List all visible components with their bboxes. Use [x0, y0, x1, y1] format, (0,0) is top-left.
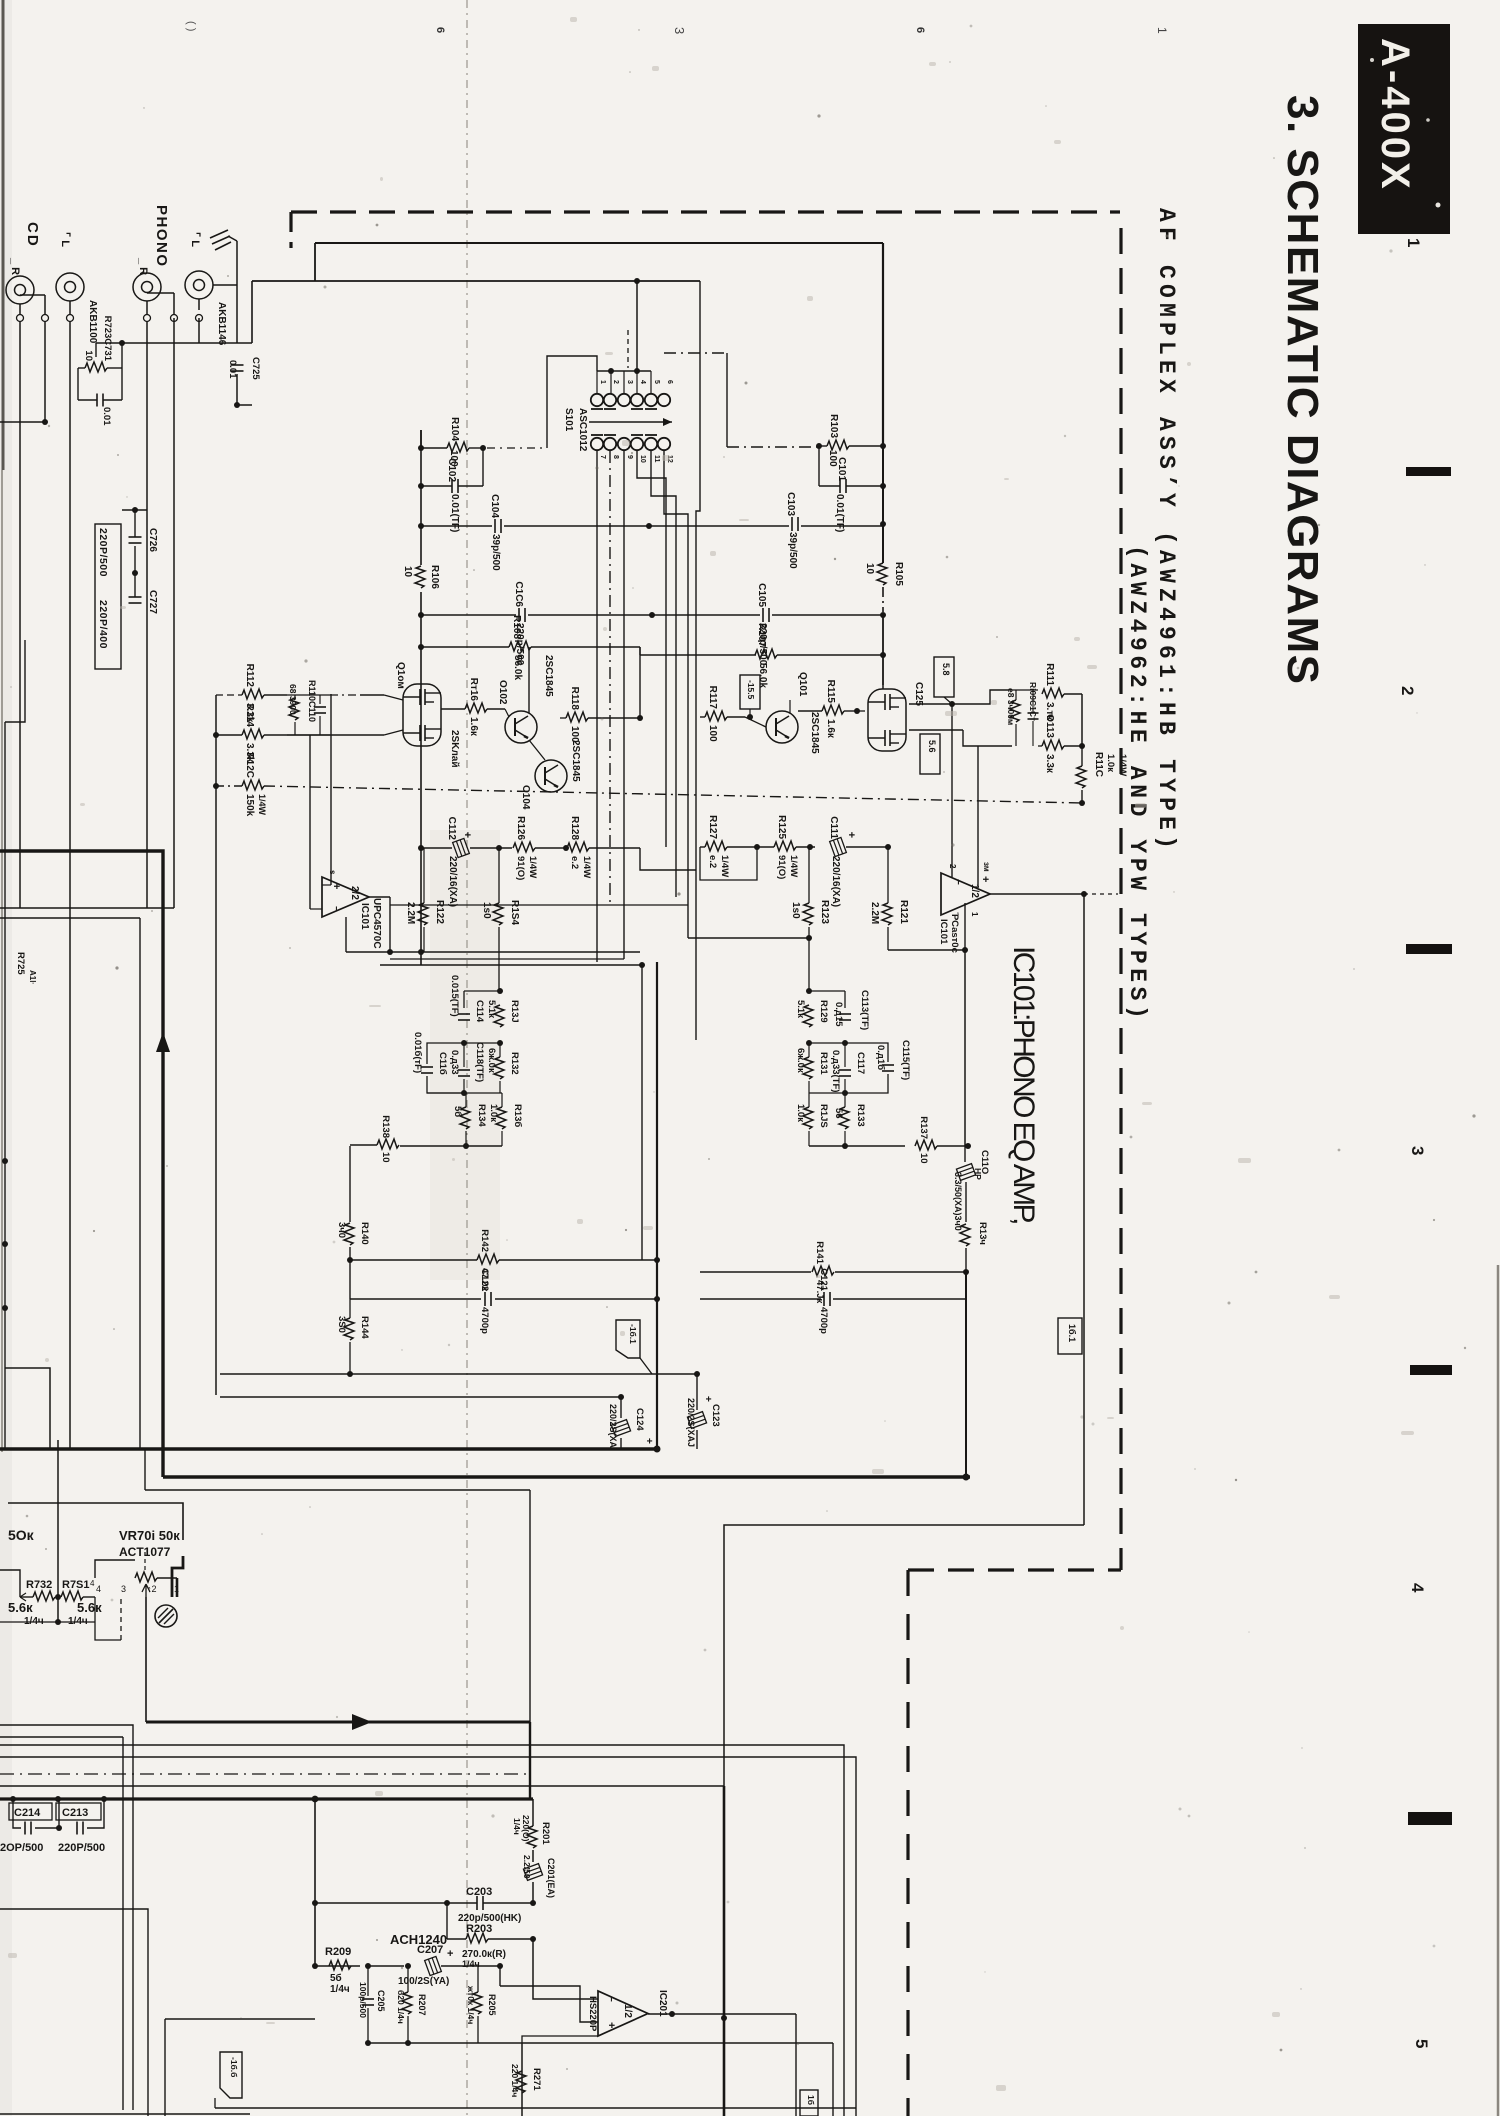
- junction output feedback: [962, 947, 968, 953]
- svg-text:1: 1: [970, 912, 979, 917]
- wire R732 left entry: [0, 1570, 20, 1597]
- assembly border right dashed upper: [1119, 228, 1122, 1570]
- wire left step to bus: [5, 1368, 50, 1449]
- svg-text:4700р: 4700р: [818, 1307, 829, 1334]
- svg-text:150k: 150k: [244, 794, 255, 817]
- svg-text:R12C: R12C: [244, 752, 255, 778]
- svg-text:C213: C213: [62, 1807, 88, 1819]
- wire R123 down to cluster: [808, 938, 810, 991]
- junction y2043 a: [365, 2040, 371, 2046]
- wire row y1299: [350, 1298, 481, 1300]
- svg-text:39p/500: 39p/500: [787, 532, 798, 569]
- svg-text:ѕ: ѕ: [328, 870, 337, 875]
- wire pot left lead: [95, 1560, 135, 1578]
- junction bus x966: [963, 1474, 970, 1481]
- capacitor C121 4700p: [823, 1292, 825, 1306]
- svg-text:C725: C725: [250, 357, 261, 380]
- svg-text:1.6к: 1.6к: [468, 717, 479, 737]
- wire x58 column through: [57, 1440, 59, 1597]
- svg-text:4: 4: [639, 380, 646, 384]
- svg-text:R122: R122: [434, 900, 445, 924]
- junction left border 2: [2, 1241, 8, 1247]
- svg-text:-1б.1: -1б.1: [628, 1324, 638, 1344]
- wire row 1622 dashed: [0, 1621, 95, 1623]
- resistor R123 150 vertical: [803, 903, 813, 925]
- wire IC201 output: [648, 2013, 672, 2015]
- svg-text:2.2/50: 2.2/50: [522, 1855, 532, 1879]
- page right edge shadow: [1497, 1265, 1500, 2116]
- wire bundle row y965: [380, 964, 642, 966]
- svg-text:3.3к: 3.3к: [1044, 754, 1055, 774]
- wire phono R down continue: [146, 525, 148, 908]
- junction x724 y2018: [721, 2015, 727, 2021]
- junction row1260 right: [654, 1257, 660, 1263]
- svg-text:НS220P: НS220P: [587, 1996, 598, 2032]
- wire lower port down: [963, 730, 1012, 746]
- wire R113 down: [1081, 746, 1083, 766]
- svg-text:Q101: Q101: [797, 672, 808, 697]
- svg-text:R142: R142: [479, 1229, 490, 1252]
- svg-text:C214: C214: [14, 1807, 41, 1819]
- svg-text:220P/400: 220P/400: [97, 600, 109, 649]
- switch S101 contact 4: [631, 394, 643, 406]
- junction row C103 right: [880, 521, 886, 527]
- svg-text:AKB1100: AKB1100: [87, 300, 98, 344]
- resistor R126 91(R): [513, 842, 535, 852]
- wire cluster L top row: [464, 990, 500, 992]
- svg-text:9: 9: [626, 455, 633, 459]
- wire IC101a plus input: [310, 908, 322, 910]
- junction R114 rail: [213, 732, 219, 738]
- wire R205 top: [477, 1966, 479, 1992]
- junction cap box top: [132, 507, 138, 513]
- wire C112 row: [421, 847, 452, 849]
- svg-text:0.01: 0.01: [101, 407, 112, 426]
- junction R723 net: [119, 340, 125, 346]
- wire R103 feed corner: [726, 353, 728, 447]
- wire PHONO L to ground net: [198, 299, 200, 310]
- svg-text:R732: R732: [26, 1579, 52, 1591]
- wire IC201 feedback down: [522, 2036, 598, 2043]
- junction R732 R731: [55, 1594, 61, 1600]
- svg-text:−: −: [952, 879, 963, 885]
- svg-text:220P/500: 220P/500: [97, 528, 109, 577]
- wire CD R down: [19, 304, 21, 315]
- svg-text:1б: 1б: [806, 2095, 816, 2105]
- wire cap box feed: [134, 510, 136, 537]
- voltage callout 16.b bottom: [800, 2090, 818, 2116]
- wire feedback row y952: [346, 951, 640, 953]
- wire y1786 left: [0, 1785, 150, 1787]
- wire top rail drop: [314, 243, 316, 281]
- page fold crease line: [466, 0, 468, 2116]
- wire long vertical x642: [641, 965, 643, 1260]
- switch S101 contact stems row1: [596, 371, 598, 394]
- svg-text:4: 4: [90, 1579, 95, 1588]
- svg-text:О113: О113: [1044, 714, 1055, 738]
- resistor R130 5.1k vertical: [494, 1005, 504, 1027]
- svg-text:е.2: е.2: [569, 856, 580, 869]
- junction row C104 bundle: [646, 523, 652, 529]
- VR701 block outline: [8, 1503, 183, 1540]
- wire x796 drop: [795, 2014, 797, 2116]
- resistor R138 10: [377, 1139, 399, 1149]
- wire C726 C727 join: [134, 546, 136, 597]
- svg-text:VR70і 50к: VR70і 50к: [119, 1528, 180, 1543]
- svg-text:2ЅC1845: 2ЅC1845: [809, 712, 820, 754]
- wire R104 dashed link to S101: [487, 447, 545, 449]
- svg-text:0.д1б: 0.д1б: [875, 1045, 886, 1070]
- svg-text:R131: R131: [818, 1052, 829, 1075]
- svg-text:2.2М: 2.2М: [869, 902, 880, 924]
- resistor R731 5.6k: [61, 1591, 83, 1601]
- svg-text:10: 10: [83, 350, 94, 361]
- svg-text:R115: R115: [825, 680, 836, 704]
- wire top rail to right channel: [315, 242, 883, 244]
- svg-text:R11С: R11С: [1093, 752, 1104, 777]
- resistor R203 270.0k(R): [466, 1933, 488, 1943]
- capacitor C205 100p/500 vertical: [367, 1966, 369, 1996]
- svg-text:R125: R125: [776, 815, 787, 839]
- svg-text:1: 1: [1404, 238, 1423, 247]
- resistor R107 56.0k: [755, 649, 777, 659]
- junction C112 left: [418, 845, 424, 851]
- potentiometer VR701: [135, 1572, 157, 1582]
- svg-text:R103: R103: [828, 414, 839, 438]
- svg-text:+: +: [461, 832, 473, 838]
- wire -15.5 stub: [749, 709, 751, 717]
- wire R103 dash-dot feed: [727, 446, 819, 448]
- svg-text:R7Ѕ1: R7Ѕ1: [62, 1579, 90, 1591]
- wire bottom edge y2114: [0, 2113, 250, 2115]
- wire bottom outline h: [165, 2018, 315, 2020]
- capacitor C201(EA) 2.2/50 electrolytic: [523, 1864, 542, 1881]
- svg-text:5: 5: [1412, 2039, 1431, 2048]
- resistor R103 100: [827, 440, 849, 450]
- svg-text:2ЅKлай: 2ЅKлай: [449, 730, 460, 768]
- capacitor C114 vertical: [458, 1013, 470, 1015]
- wire Q102 emitter to Q104: [529, 740, 545, 760]
- resistor R135 1.0k vertical: [803, 1107, 813, 1129]
- wire row y1903: [315, 1902, 447, 1904]
- wire pin3 drop: [120, 1597, 122, 1640]
- resistor R124 150 vertical: [493, 903, 503, 925]
- svg-text:ASC1012: ASC1012: [577, 408, 588, 452]
- svg-text:⌜ L: ⌜ L: [189, 232, 201, 247]
- wire R115 to FET: [857, 710, 865, 712]
- junction S101 bus b: [634, 368, 640, 374]
- svg-text:C121: C121: [818, 1268, 829, 1291]
- junction R113 right: [1079, 743, 1085, 749]
- svg-text:+: +: [447, 1948, 453, 1960]
- svg-text:+: +: [643, 1438, 654, 1444]
- svg-text:R117: R117: [707, 686, 718, 710]
- svg-text:е8 3ч00м: е8 3ч00м: [1006, 688, 1016, 725]
- svg-text:5.1к: 5.1к: [486, 1000, 497, 1018]
- svg-text:3. SCHEMATIC DIAGRAMS: 3. SCHEMATIC DIAGRAMS: [1278, 95, 1327, 685]
- svg-text:C727: C727: [147, 590, 158, 614]
- switch S101 contact 6: [658, 394, 670, 406]
- wire output dash to border: [1084, 893, 1118, 895]
- resistor R139 390 vertical: [960, 1224, 970, 1246]
- wire phono bus horizontal: [96, 342, 252, 344]
- svg-text:-15.5: -15.5: [746, 680, 756, 700]
- wire S101 gate feed: [547, 356, 597, 448]
- resistor R116 1.6k: [465, 703, 487, 713]
- svg-text:11: 11: [653, 455, 660, 463]
- wire row y1374: [220, 1373, 697, 1375]
- switch S101 contact 10: [631, 438, 643, 450]
- svg-text:3.3/50(ХА)3ч0: 3.3/50(ХА)3ч0: [953, 1172, 963, 1231]
- capacitor C117 vertical: [839, 1069, 851, 1071]
- svg-text:1/4ч: 1/4ч: [330, 1984, 350, 1995]
- svg-text:2OP/500: 2OP/500: [0, 1842, 43, 1854]
- junction C102 left: [418, 483, 424, 489]
- svg-text:5б: 5б: [452, 1106, 463, 1117]
- wire IC101a feedback bottom: [345, 917, 347, 952]
- resistor R106 10 vertical: [415, 566, 425, 588]
- svg-text:R271: R271: [531, 2068, 542, 2091]
- svg-text:4700р: 4700р: [479, 1307, 490, 1334]
- svg-text:5.8: 5.8: [941, 663, 951, 676]
- wire R139 bottom: [965, 1248, 967, 1272]
- wire IC201 out to x724: [672, 2014, 724, 2018]
- junction R209 right: [365, 1963, 371, 1969]
- svg-text:4: 4: [96, 1584, 101, 1594]
- svg-text:1/4W: 1/4W: [719, 855, 730, 877]
- wire x145 drop: [144, 1449, 146, 1490]
- resistor R732 5.6k: [33, 1591, 55, 1601]
- svg-text:AKB1146: AKB1146: [216, 302, 227, 346]
- wire PHONO R cap link: [122, 509, 147, 511]
- junction R103 left: [816, 443, 822, 449]
- svg-text:ІС101: ІС101: [938, 919, 949, 945]
- wire IC101a minus input: [322, 884, 331, 886]
- junction x657 y1449: [654, 1446, 661, 1453]
- junction second rail S101: [634, 278, 640, 284]
- wire IC101b output right: [990, 893, 1084, 895]
- junction row1374 right: [694, 1371, 700, 1377]
- junction R117 right: [747, 714, 753, 720]
- wire R128 right corner down: [640, 848, 696, 870]
- wire R109 top to R111: [1008, 689, 1038, 691]
- wire IC101b input2 down: [951, 704, 953, 877]
- capacitor C111 220/16(XA) electrolytic: [830, 837, 847, 856]
- svg-text:R141: R141: [814, 1241, 825, 1264]
- wire long vertical x657: [656, 962, 658, 1449]
- svg-text:0.д33(TF): 0.д33(TF): [830, 1050, 841, 1092]
- svg-text:1: 1: [1155, 27, 1169, 34]
- wire x530 drop: [529, 1490, 531, 1722]
- wire R117 to Q101: [745, 717, 766, 727]
- voltage callout -16.1: [616, 1320, 640, 1358]
- svg-text:100: 100: [569, 726, 580, 743]
- resistor R114 3.3k: [242, 729, 264, 739]
- arrow up on heavy wire: [156, 1032, 170, 1052]
- capacitor C101 0.01(TF): [839, 479, 841, 493]
- resistor R142 47.0k: [477, 1254, 499, 1264]
- junction C726727: [132, 570, 138, 576]
- svg-text:6: 6: [914, 27, 926, 33]
- junction left border 3: [2, 1305, 8, 1311]
- svg-text:−: −: [330, 906, 341, 912]
- junction R108 left: [418, 644, 424, 650]
- svg-text:1/4W: 1/4W: [527, 856, 538, 878]
- junction R125 right: [807, 844, 813, 850]
- wire PHONO L feed corner: [251, 281, 253, 343]
- svg-text:( ): ( ): [185, 21, 197, 31]
- wire C725 bottom to right: [237, 404, 252, 406]
- svg-text:C203: C203: [466, 1886, 492, 1898]
- svg-text:C105: C105: [756, 583, 767, 607]
- junction bus1799 c: [101, 1796, 107, 1802]
- wire R127 loop below: [700, 847, 757, 880]
- wire IC101b output stub: [964, 903, 966, 950]
- svg-text:10: 10: [918, 1153, 929, 1164]
- wire left horizontal pair lower: [0, 917, 140, 919]
- junction cluster R top: [806, 988, 812, 994]
- svg-text:220P/500: 220P/500: [58, 1842, 105, 1854]
- capacitor C727: [129, 596, 142, 598]
- wire PHONO L jack top link: [213, 284, 237, 286]
- switch S101 contact 2: [604, 394, 616, 406]
- svg-text:R123: R123: [819, 900, 830, 924]
- svg-text:Q1ом: Q1ом: [395, 662, 406, 689]
- wire C725 down: [236, 374, 238, 405]
- wire FET q103 top source: [441, 708, 465, 710]
- capacitor C113 vertical: [839, 1013, 851, 1015]
- wire C111 right: [846, 846, 888, 848]
- wire C121 row: [700, 1298, 821, 1300]
- wire S101 pin7 down: [596, 451, 598, 962]
- capacitor C731 0.01: [96, 394, 98, 407]
- svg-text:C103: C103: [785, 492, 796, 516]
- pin CD R: [17, 315, 24, 322]
- wire x833 drop: [832, 2043, 834, 2116]
- wire FET to R109 step: [952, 690, 1008, 704]
- wire bottom edge y2108: [215, 2107, 856, 2109]
- svg-text:A1ŀ: A1ŀ: [28, 970, 37, 984]
- svg-text:C201(ЕА): C201(ЕА): [546, 1858, 556, 1898]
- svg-text:220 1/4ч: 220 1/4ч: [510, 2064, 520, 2097]
- svg-text:3: 3: [672, 27, 687, 34]
- junction R127 right: [754, 844, 760, 850]
- wire row y938: [688, 937, 809, 939]
- switch S101 contact 12: [658, 438, 670, 450]
- junction R118 right: [637, 715, 643, 721]
- junction CD branch: [42, 419, 48, 425]
- capacitor C123 220/25(XA) electrolytic: [696, 1374, 698, 1410]
- svg-text:4: 4: [1408, 1583, 1427, 1593]
- jack CD L: [56, 273, 84, 301]
- switch S101 wiper arrow: [589, 421, 672, 423]
- svg-text:10: 10: [864, 563, 875, 575]
- junction R137 right: [965, 1143, 971, 1149]
- svg-text:R144: R144: [359, 1316, 370, 1339]
- wire pot wiper dashed feed: [144, 1552, 146, 1572]
- junction x315 y1903: [312, 1900, 318, 1906]
- junction C101 right: [880, 483, 886, 489]
- svg-text:R114: R114: [244, 704, 255, 728]
- resistor R133 56 vertical: [839, 1107, 849, 1129]
- resistor R127 8.2: [705, 841, 727, 851]
- svg-text:220/16(XA): 220/16(XA): [447, 856, 458, 907]
- junction row C104 left: [418, 523, 424, 529]
- wire left horizontal pair upper: [0, 907, 174, 909]
- capacitor C109 vertical: [1028, 712, 1039, 714]
- wire cluster R row3: [809, 1092, 845, 1094]
- svg-text:R112: R112: [244, 664, 255, 688]
- wire FET lower port: [909, 729, 963, 731]
- svg-text:C1C6: C1C6: [513, 581, 524, 607]
- resistor R105 10 vertical: [877, 563, 887, 585]
- assembly border right dashed lower: [906, 1570, 909, 2116]
- capacitor C207 100/25(YA) electrolytic: [368, 1965, 404, 1967]
- svg-text:R134: R134: [476, 1104, 487, 1127]
- svg-text:5.6к: 5.6к: [8, 1600, 33, 1615]
- svg-text:+: +: [845, 832, 857, 838]
- resistor R121 2.2M vertical: [882, 903, 892, 925]
- wire cluster L left drop: [463, 991, 465, 1008]
- svg-text:0.01(TF): 0.01(TF): [834, 494, 845, 532]
- wire bottom row y2043: [368, 2042, 833, 2044]
- svg-text:(AWZ4962:HE AND YPW TYPES): (AWZ4962:HE AND YPW TYPES): [1124, 545, 1150, 1023]
- wire -16.6 area outline: [165, 1966, 321, 2019]
- svg-text:3: 3: [626, 380, 633, 384]
- svg-text:C122: C122: [479, 1268, 490, 1291]
- svg-text:Rт16: Rт16: [468, 678, 479, 702]
- svg-text:C115(TF): C115(TF): [900, 1040, 911, 1080]
- transistor Q102 2SC1845: [505, 711, 537, 743]
- svg-text:R723C731: R723C731: [102, 316, 113, 362]
- resistor R271 220 vertical: [516, 2071, 526, 2093]
- svg-text:R105: R105: [893, 562, 904, 586]
- svg-text:2ЅC1845: 2ЅC1845: [570, 740, 581, 782]
- junction R126 right: [563, 845, 569, 851]
- wire opamp plus drop: [499, 1966, 501, 1986]
- svg-text:б20 1/4ч: б20 1/4ч: [396, 1990, 406, 2024]
- svg-text:3ч0: 3ч0: [336, 1222, 347, 1238]
- svg-text:7: 7: [599, 455, 606, 459]
- svg-text:1/2: 1/2: [969, 884, 980, 898]
- resistor R144 330 vertical: [344, 1318, 354, 1340]
- wire output col to bus: [965, 1272, 967, 1477]
- capacitor C726: [129, 536, 142, 538]
- svg-text:C104: C104: [489, 494, 500, 518]
- junction R209 left: [312, 1963, 318, 1969]
- capacitor C112 220/16(XA) electrolytic: [453, 838, 470, 857]
- svg-text:IC201: IC201: [657, 1990, 668, 2017]
- wire IC101a output: [369, 896, 390, 898]
- voltage callout -15.5: [740, 675, 760, 709]
- svg-text:10: 10: [639, 455, 646, 463]
- wire R121 feedback to output: [888, 949, 965, 951]
- resistor R112 3.3k: [242, 689, 264, 699]
- assembly border top-left corner dash: [289, 212, 292, 248]
- svg-text:R107: R107: [756, 623, 767, 647]
- registration tick 1: [1406, 467, 1451, 476]
- svg-text:1/4W: 1/4W: [788, 855, 799, 877]
- svg-text:91(О): 91(О): [776, 855, 787, 879]
- wire cluster R top row: [809, 990, 845, 992]
- junction cluster R row2b: [842, 1040, 848, 1046]
- svg-text:CD: CD: [24, 222, 41, 248]
- svg-text:220/2Ѕ(ХА): 220/2Ѕ(ХА): [608, 1404, 618, 1451]
- wire IC201 plus input route: [500, 1986, 598, 2022]
- svg-text:R205: R205: [487, 1994, 497, 2016]
- scanner edge mark left lower: [1, 470, 3, 1452]
- registration tick 3: [1410, 1365, 1452, 1375]
